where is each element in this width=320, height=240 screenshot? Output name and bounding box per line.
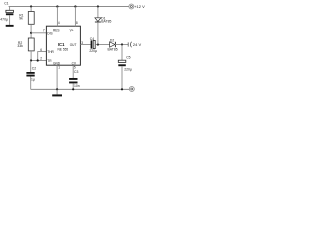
svg-text:C5: C5 (126, 55, 130, 59)
svg-text:33k: 33k (17, 44, 23, 48)
svg-text:D2: D2 (110, 38, 114, 42)
capacitor C3 (69, 70, 80, 89)
svg-text:DIS: DIS (47, 32, 52, 36)
capacitor C1 (0, 2, 13, 25)
diode D2 BAT85 (108, 38, 118, 51)
node output/C5 (121, 43, 123, 45)
svg-text:220µ: 220µ (89, 49, 97, 53)
svg-text:1µ: 1µ (31, 77, 35, 81)
svg-text:RES: RES (53, 29, 60, 33)
node TR/THR (37, 59, 39, 61)
node C3/rail (72, 88, 74, 90)
terminal 24V output (128, 42, 141, 48)
svg-text:470µ: 470µ (0, 18, 8, 22)
wire DIS to IC pin 7 (31, 32, 46, 34)
ground (bottom rail) (52, 89, 62, 96)
terminal +12V (129, 4, 145, 9)
svg-text:THR: THR (47, 50, 54, 54)
wire TR node to IC pin 2 (31, 60, 47, 62)
svg-text:9k: 9k (19, 17, 23, 21)
node D1/top rail (97, 5, 99, 7)
svg-text:TR: TR (47, 59, 52, 63)
svg-text:10n: 10n (74, 84, 80, 88)
resistor R1 (19, 7, 34, 25)
wire pin 1 GND to bottom rail (56, 65, 58, 89)
node R1/top rail (30, 5, 32, 7)
svg-text:OUT: OUT (70, 43, 77, 47)
svg-text:1: 1 (58, 66, 60, 70)
svg-text:8: 8 (76, 21, 78, 25)
svg-text:3: 3 (81, 41, 83, 45)
capacitor C5 (118, 45, 132, 90)
svg-text:7: 7 (43, 29, 45, 33)
node D1/C4/D2 (97, 43, 99, 45)
svg-text:+12 V: +12 V (134, 4, 145, 9)
wire bottom ground rail (31, 88, 130, 90)
terminal 0V output (129, 87, 134, 92)
svg-text:2: 2 (40, 57, 42, 61)
wire OUT pin 3 (80, 44, 90, 46)
capacitor C2 (26, 61, 36, 90)
wire R1 to R2 (30, 24, 32, 38)
wire pin 4 to rail (56, 7, 58, 27)
svg-text:V+: V+ (70, 29, 74, 33)
node pin8/top rail (74, 5, 76, 7)
wire pin 8 to rail (74, 7, 76, 27)
ground (below C1) (6, 25, 14, 27)
svg-text:NE 555: NE 555 (58, 48, 69, 52)
node TR/R2/C2 (30, 59, 32, 61)
wire top +12V rail (9, 6, 129, 8)
svg-text:6: 6 (40, 48, 42, 52)
svg-text:C3: C3 (74, 70, 78, 74)
node DIS junction (30, 32, 32, 34)
wire D2 to output (115, 44, 128, 46)
svg-text:BAT85: BAT85 (101, 20, 111, 24)
wire THR to IC pin 6 (38, 52, 47, 61)
svg-text:C2: C2 (32, 67, 36, 71)
svg-text:BAT85: BAT85 (108, 47, 118, 51)
wire R2 to TR node (30, 51, 32, 61)
wire C4 to D2 (95, 44, 110, 46)
wire pin 5 CV down (72, 65, 74, 78)
node C5/rail (121, 88, 123, 90)
resistor R2 (17, 38, 34, 51)
diode D1 BAT85 (95, 7, 112, 45)
svg-text:IC1: IC1 (58, 42, 65, 47)
op-amp / timer IC1 NE555 body (46, 26, 80, 65)
svg-text:24 V: 24 V (133, 42, 142, 47)
svg-text:220µ: 220µ (124, 68, 132, 72)
node pin4/top rail (56, 5, 58, 7)
node gnd/pin1 (56, 88, 58, 90)
svg-text:C1: C1 (4, 2, 8, 6)
capacitor C4 (89, 37, 97, 53)
svg-text:4: 4 (58, 21, 60, 25)
